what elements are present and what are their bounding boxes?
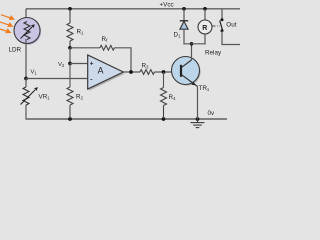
resistor R2 <box>67 64 73 120</box>
wire VR1 bottom lead <box>25 105 27 119</box>
light arrows <box>0 15 14 33</box>
node collector/D1/relay <box>190 42 194 46</box>
wire feedback right <box>114 48 131 72</box>
wire top rail <box>26 8 240 10</box>
wire emitter <box>197 87 199 120</box>
variable resistor VR1 <box>21 79 38 106</box>
wire bottom rail <box>25 118 227 120</box>
LDR <box>14 18 41 45</box>
wire LDR to V1 <box>25 39 27 79</box>
svg-text:R3: R3 <box>142 63 150 70</box>
ground <box>191 119 205 128</box>
svg-text:+Vcc: +Vcc <box>160 1 174 8</box>
wire collector <box>191 44 193 60</box>
wire V1 to - input <box>26 78 88 80</box>
node V1 <box>24 77 28 81</box>
wire D1-relay bottom <box>183 43 205 45</box>
node top-rail/R1 <box>68 7 72 11</box>
resistor R4 <box>161 72 167 119</box>
svg-text:0v: 0v <box>208 110 216 117</box>
node output/feedback <box>129 70 133 74</box>
node R3/R4 <box>162 70 166 74</box>
svg-text:R2: R2 <box>76 94 84 101</box>
svg-text:Out: Out <box>226 21 236 28</box>
mechanical link <box>213 25 221 27</box>
wire op-amp output <box>123 71 140 73</box>
svg-text:V1: V1 <box>31 70 38 76</box>
diode D1 <box>180 9 188 45</box>
svg-text:V2: V2 <box>58 62 65 68</box>
svg-text:D1: D1 <box>174 32 182 39</box>
svg-text:R1: R1 <box>77 29 85 36</box>
wire feedback left <box>70 47 100 49</box>
wire V2 to + input <box>70 63 88 65</box>
svg-text:-: - <box>90 76 92 83</box>
svg-text:TR1: TR1 <box>199 85 210 92</box>
svg-text:+: + <box>90 61 94 68</box>
relay contact <box>220 9 240 45</box>
node rail/R4 <box>162 117 166 121</box>
node R1/Rf/V2 <box>68 46 72 50</box>
resistor R1 <box>67 9 73 48</box>
resistor R3 <box>140 70 154 75</box>
svg-text:Relay: Relay <box>205 50 222 57</box>
node rail/ground <box>196 117 200 121</box>
svg-text:VR1: VR1 <box>39 94 51 101</box>
wire R3 to base <box>154 71 181 73</box>
wire LDR top lead <box>25 9 27 22</box>
op-amp U1 <box>88 55 125 91</box>
resistor Rf <box>100 45 114 50</box>
node top-rail/D1 <box>182 7 186 11</box>
node rail/R2 <box>68 117 72 121</box>
transistor TR1 <box>172 57 201 87</box>
svg-text:LDR: LDR <box>9 47 22 54</box>
svg-text:R: R <box>202 25 207 32</box>
svg-text:R4: R4 <box>169 94 177 101</box>
node top-rail/relay <box>203 7 207 11</box>
svg-text:Rf: Rf <box>102 36 109 43</box>
wire V2 column <box>69 48 71 64</box>
svg-text:A: A <box>98 66 104 76</box>
node V2 <box>68 62 72 66</box>
relay coil <box>198 9 212 45</box>
